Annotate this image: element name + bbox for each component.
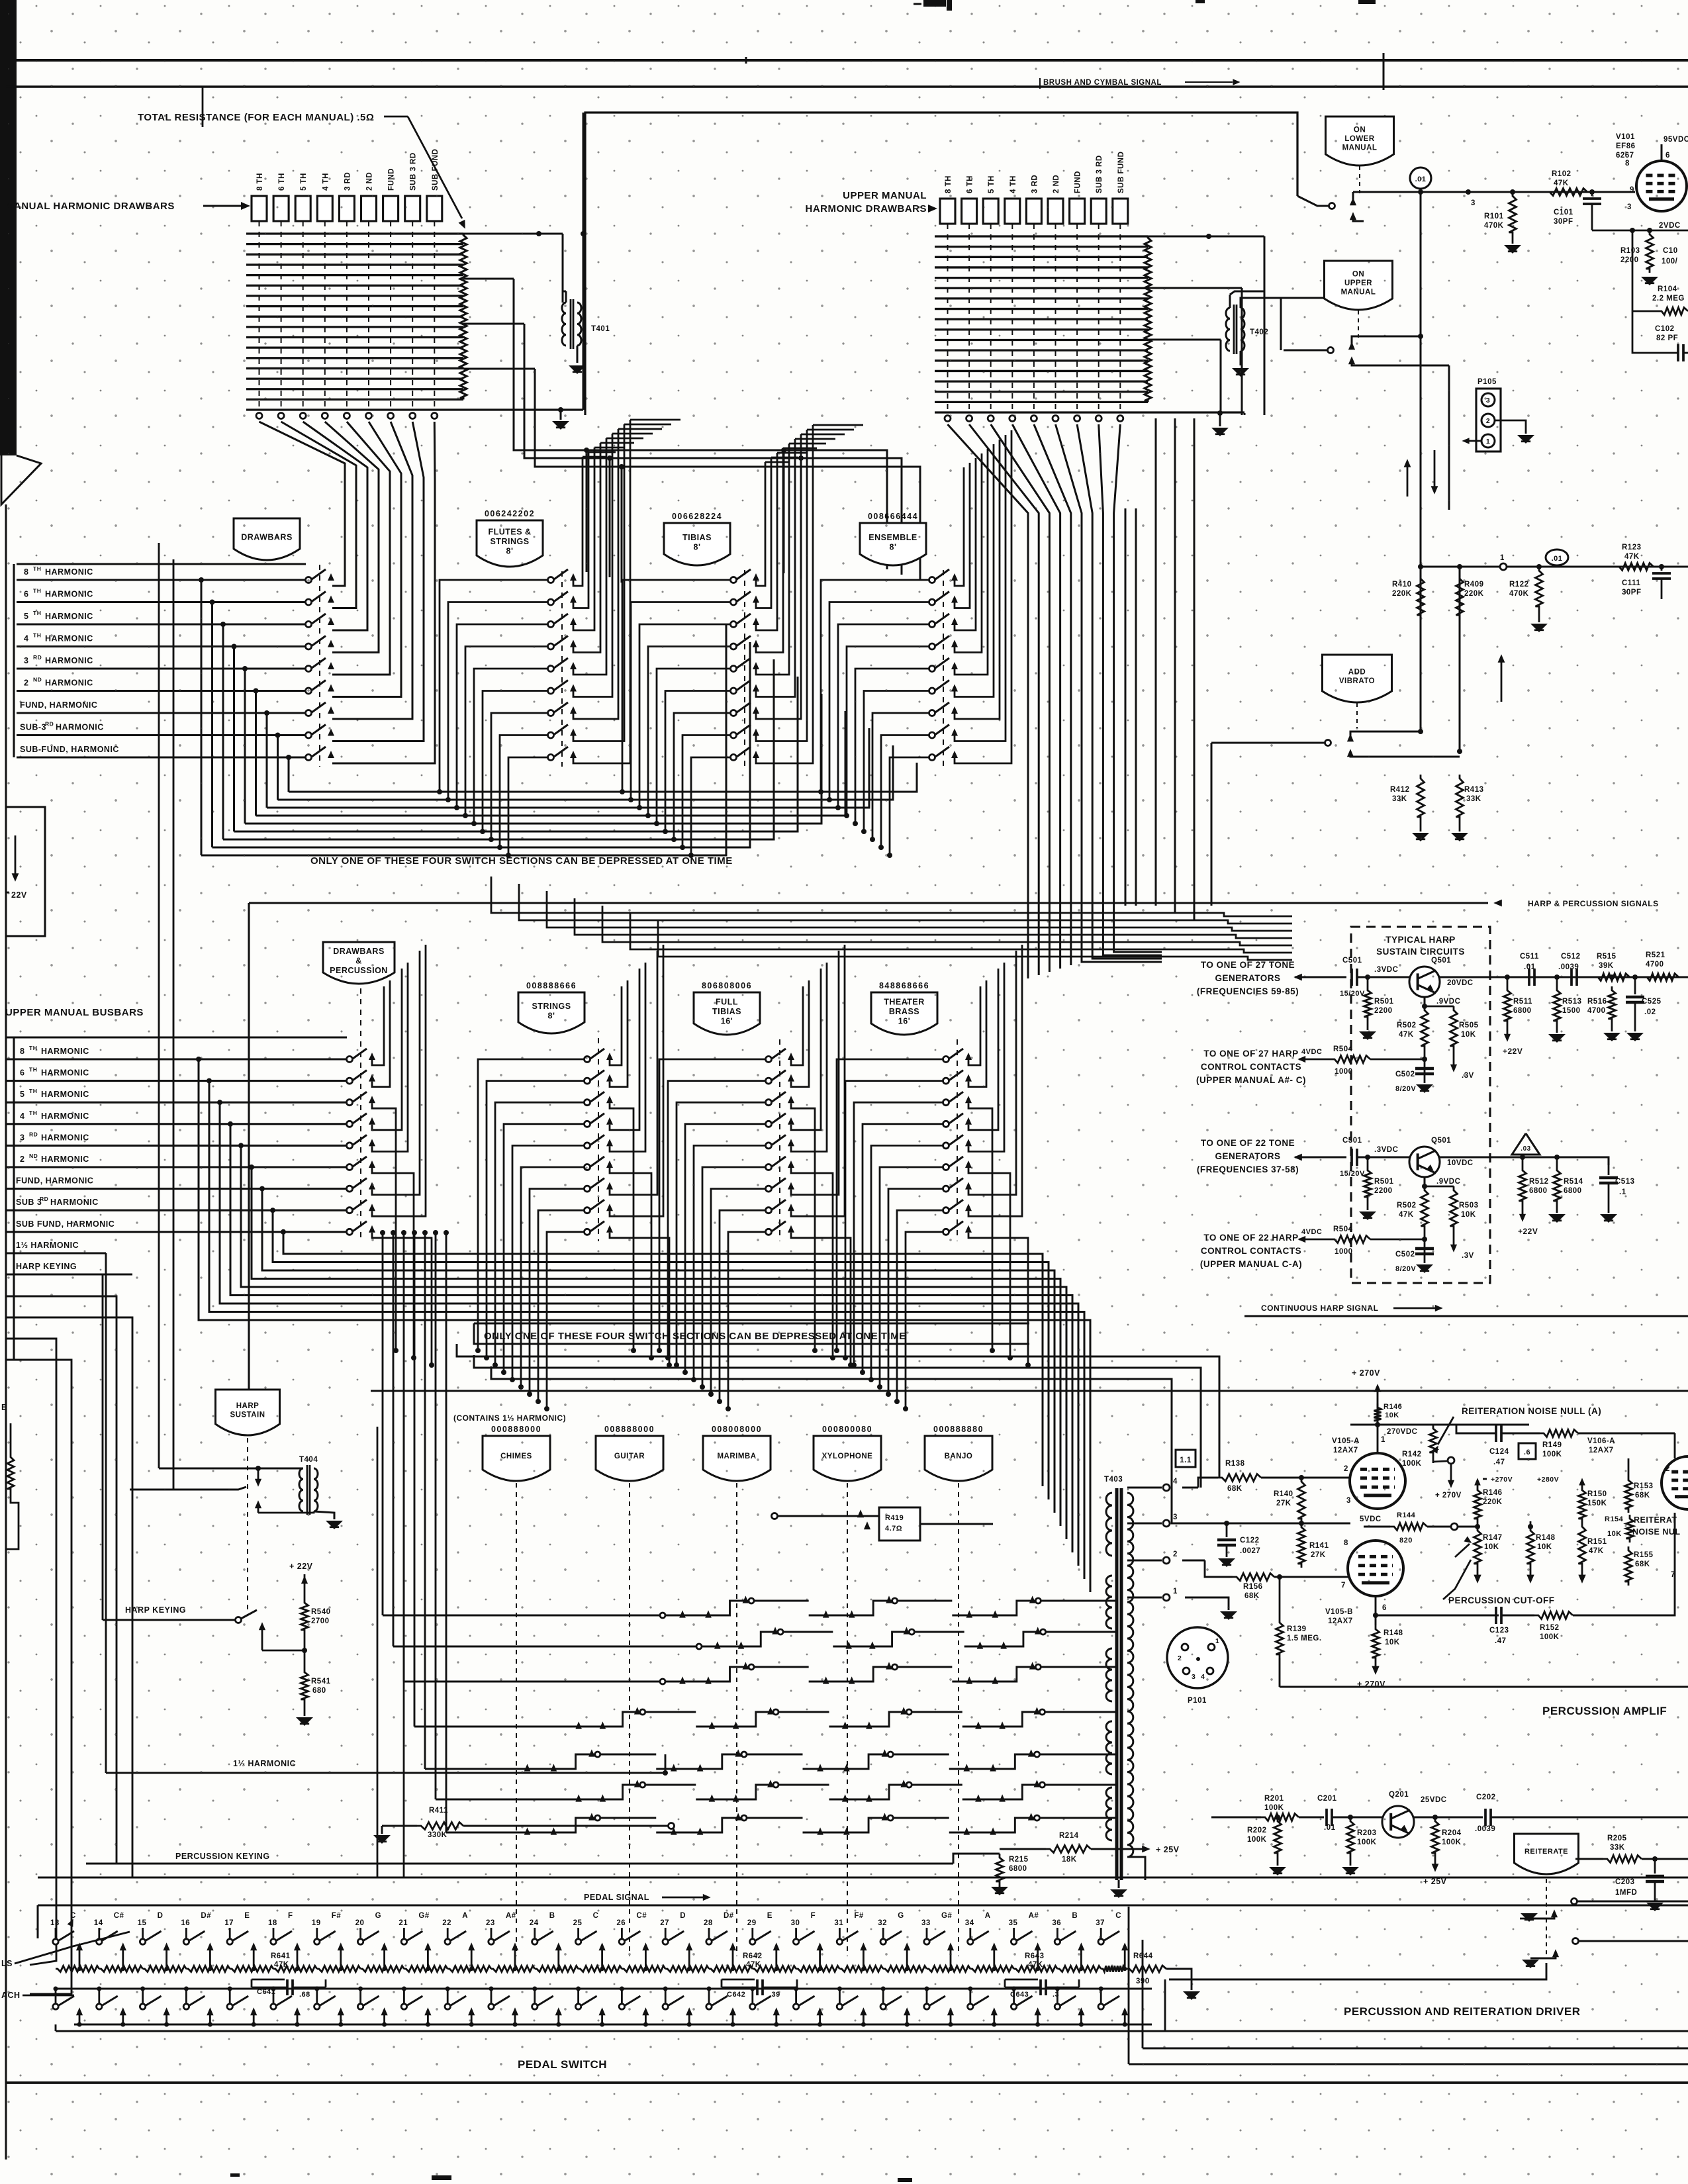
group2 bus line: [6, 1080, 347, 1082]
BANJO dashed stem: [958, 1483, 959, 1956]
tablet ADD VIBRATO: [1323, 655, 1392, 702]
switch row 8: [731, 732, 737, 738]
ground below R501: [1359, 1031, 1376, 1040]
on upper manual switch: [1328, 348, 1334, 354]
C643 .3: [1005, 1979, 1038, 1981]
switch row 1: [766, 1057, 772, 1063]
group2 bus line: [6, 1210, 347, 1211]
switch row 3: [943, 1100, 949, 1106]
resistor R138 68K: [1218, 1474, 1261, 1482]
left resistor mid: [7, 1453, 14, 1493]
switch row 8: [929, 732, 935, 738]
resistor R145 10K plate: [1374, 1403, 1382, 1425]
resistor R501 2200: [1367, 1157, 1368, 1180]
switch row 4: [306, 643, 312, 649]
wire grid V105-B: [1182, 1523, 1350, 1525]
horizontal line above tablets: [371, 1390, 1688, 1392]
ground below C502: [1416, 1084, 1433, 1093]
group1 bus tap drops to bundle A: [199, 577, 204, 583]
switch row 2: [731, 599, 737, 605]
R144 820: [1390, 1523, 1427, 1531]
R504 1000 4VDC arrow: [1297, 1236, 1305, 1243]
tablet MARIMBA: [703, 1436, 771, 1481]
ground below R412: [1412, 833, 1429, 841]
switch row 4: [585, 1121, 590, 1127]
box around upper matrix: [585, 113, 1297, 415]
switch row 8: [766, 1208, 772, 1213]
switch row 5: [731, 666, 737, 672]
resistor R541 680: [301, 1668, 308, 1703]
pedal switches row 2: [56, 1988, 1152, 1990]
group2 bus line: [6, 1145, 347, 1147]
scan marks bottom edge: [432, 2175, 451, 2180]
bus line 5 harmonic: [17, 623, 306, 625]
resistor R409 220K: [1459, 567, 1461, 751]
resistor R152 100K: [1534, 1612, 1573, 1619]
resistor R140 27K: [1298, 1478, 1305, 1523]
GUITAR dashed stem: [629, 1483, 630, 1956]
bus line 2 harmonic: [17, 690, 306, 692]
left elbow feed wires: [6, 1253, 87, 1254]
drawbar FUND: [1070, 199, 1085, 224]
switch row 3: [766, 1100, 772, 1106]
ground below R103: [1641, 277, 1658, 285]
bank dashed line: [319, 565, 320, 767]
tablet DRAWBARS: [234, 518, 300, 560]
central vertical bundle extra lines: [1125, 508, 1127, 906]
R214 18K: [1000, 1848, 1046, 1850]
connector P101: [1167, 1627, 1228, 1688]
arrow up mid right: [1501, 659, 1503, 702]
tablet ON LOWER MANUAL: [1326, 117, 1394, 166]
left 22V box: [6, 807, 45, 936]
ground below T404: [326, 1521, 343, 1529]
matrix bottom bus: [935, 411, 1244, 413]
reiterate switch 2: [1573, 1938, 1579, 1944]
matrix terminal circles: [256, 413, 262, 419]
arrows on vertical wires: [1434, 450, 1436, 490]
Q201 emitter R204: [1409, 1832, 1411, 1857]
switch row 6: [929, 688, 935, 694]
switch row 4: [731, 643, 737, 649]
bus line SUB-FUND, harmonic: [17, 756, 306, 758]
capacitor C525 .02: [1634, 977, 1636, 994]
reiterate switch 1: [1571, 1899, 1577, 1905]
switch row 3: [548, 622, 554, 628]
switch row 5: [766, 1143, 772, 1149]
matrix resistor ladder: [1145, 236, 1151, 402]
switch row 2: [548, 599, 554, 605]
ground at matrix1 bus end: [560, 410, 562, 420]
switch row 8: [347, 1208, 353, 1213]
group2 bus line: [6, 1188, 347, 1190]
value box .6: [1519, 1443, 1536, 1459]
top tick marks: [1383, 53, 1385, 90]
switch row 4: [766, 1121, 772, 1127]
switch row 5: [347, 1143, 353, 1149]
bank dashed line: [598, 1038, 599, 1241]
ground below R501: [1359, 1211, 1376, 1220]
drawbar 8 TH: [252, 196, 267, 221]
switch row 9: [766, 1229, 772, 1235]
tube V106-A: [1662, 1456, 1688, 1509]
left edge diagonal mark: [1, 455, 41, 504]
switch row 1: [943, 1057, 949, 1063]
top border line 1: [6, 59, 1688, 62]
capacitor C501: [1350, 1149, 1353, 1166]
switch row 1: [585, 1057, 590, 1063]
drawbar dashed stems: [259, 221, 260, 410]
drawbar 6 TH: [962, 199, 977, 224]
ground below T401: [569, 365, 586, 374]
drawbar 8 TH: [940, 199, 955, 224]
switch row 5: [585, 1143, 590, 1149]
ground below C502: [1416, 1264, 1433, 1273]
R644 390: [1125, 1966, 1166, 1972]
tube V105-A: [1350, 1453, 1405, 1509]
switch row 8: [585, 1208, 590, 1213]
drawbar 3 RD: [339, 196, 354, 221]
gnd arrows R147 R148 R151: [1477, 1568, 1479, 1577]
drawbar SUB 3 RD: [1091, 199, 1106, 224]
group2 lower output lines: [457, 1344, 1219, 1478]
transformer T401: [562, 234, 564, 303]
wires at R419: [778, 1515, 879, 1517]
resistor R413 33K: [1456, 775, 1464, 821]
matrix1 tap wires: [463, 233, 539, 235]
T403 taps: [1127, 1487, 1162, 1489]
matrix2 fan wires: [948, 424, 1029, 978]
emitter network R502: [1424, 1177, 1426, 1186]
group2 bus tap drops to bundle B: [196, 1057, 201, 1062]
ground below R122: [1530, 624, 1548, 632]
tube V101 EF86: [1636, 161, 1687, 211]
pedal signal upper line: [38, 1877, 1688, 1879]
matrix2 bottom ground: [1219, 413, 1221, 426]
scan marks top edge: [923, 0, 946, 7]
wire from box to switch: [1297, 196, 1329, 206]
switch row 6: [766, 1164, 772, 1170]
tablet ENSEMBLE 8': [860, 523, 926, 565]
wire y856 R123 area: [1421, 566, 1688, 568]
on lower manual switch: [1329, 203, 1335, 209]
capacitor C122 .0027: [1226, 1523, 1228, 1537]
switch row 6: [306, 688, 312, 694]
ground below R541: [296, 1717, 313, 1726]
resistor R513 1500: [1554, 986, 1561, 1025]
percussion region frame: [328, 1427, 330, 1973]
group2 bus line: [6, 1058, 347, 1060]
harp out network 2: [1489, 1157, 1552, 1159]
capacitor C123 .47: [1376, 1615, 1499, 1617]
bundle A lines: [289, 763, 917, 792]
drawbar SUB FUND: [1113, 199, 1128, 224]
resistor R141 27K: [1298, 1523, 1305, 1568]
drops from tap elbows: [586, 450, 588, 572]
left inner border line: [5, 504, 7, 2160]
switch row 9: [585, 1229, 590, 1235]
drawbar 6 TH: [273, 196, 289, 221]
matrix2 tap wires: [1148, 236, 1209, 238]
typical harp sustain dashed box: [1351, 927, 1490, 1283]
resistor R412 33K: [1417, 775, 1425, 821]
tablet FULL TIBIAS 16': [694, 992, 760, 1035]
capacitor C101 30PF: [1589, 189, 1595, 195]
bottom output line 2: [1142, 1940, 1144, 2048]
tablet GUITAR: [596, 1436, 663, 1481]
switch row 9: [306, 755, 312, 761]
group2 bank right comb wires: [372, 986, 384, 1065]
group1 bank right comb wires: [573, 457, 583, 586]
+270V arrow mid: [1450, 1464, 1452, 1483]
ground below T403: [1118, 1880, 1120, 1888]
bottom border line: [6, 2081, 1688, 2084]
R504 1000 4VDC arrow: [1297, 1056, 1305, 1063]
P105 pin1 wire: [1466, 440, 1481, 442]
top border line 2: [6, 85, 1688, 87]
switch row 6: [548, 688, 554, 694]
T402 secondary wires: [1241, 298, 1281, 308]
resistor R203 100K: [1347, 1817, 1354, 1857]
R419 4.7 ohm box: [879, 1507, 920, 1541]
switch row 7: [306, 710, 312, 716]
switch row 6: [585, 1164, 590, 1170]
driver input wire: [1211, 1817, 1261, 1819]
switch row 1: [306, 577, 312, 583]
ground below R101: [1512, 236, 1514, 244]
switch row 2: [929, 599, 935, 605]
resistor R514 6800: [1556, 1157, 1558, 1166]
bank dashed line: [943, 570, 944, 767]
matrix terminal circles: [945, 416, 951, 422]
resistor R202 100K: [1274, 1817, 1282, 1857]
capacitor C203 1MFD: [1652, 1856, 1658, 1862]
C641 .68: [248, 1969, 278, 1983]
capacitor C201 .01: [1325, 1809, 1328, 1826]
bottom wire of amp: [1280, 1686, 1688, 1688]
harp percussion signal band: [491, 877, 1292, 916]
bank dashed line: [957, 1039, 958, 1241]
left wires to T404: [158, 543, 160, 1468]
switch row 5: [929, 666, 935, 672]
main signal wire to V101: [1353, 191, 1635, 193]
group2 busbar ladder top line: [6, 1036, 347, 1038]
capacitor C124 .47: [1456, 1425, 1496, 1433]
emitter network R502: [1424, 997, 1426, 1006]
transistor Q501: [1409, 967, 1440, 997]
drawbar FUND: [383, 196, 399, 221]
drawbar 2 ND: [361, 196, 377, 221]
tablet ON UPPER MANUAL: [1325, 261, 1393, 310]
driver output elbows: [1169, 1963, 1546, 1979]
bottom left elbows: [403, 1391, 405, 1877]
harp percussion signals label: [1493, 900, 1502, 907]
matrix resistor ladder: [460, 234, 467, 399]
wire right of matrix1: [583, 113, 585, 410]
bus line 4 harmonic: [17, 645, 306, 647]
wire tap4 to grid: [1182, 1487, 1198, 1489]
capacitor C513 .1: [1608, 1165, 1610, 1175]
switch row 4: [548, 643, 554, 649]
matrix bottom bus: [246, 408, 583, 410]
tablet DRAWBARS & PERCUSSION: [323, 942, 395, 984]
CHIMES dashed stem: [516, 1483, 517, 1956]
switch row 7: [585, 1186, 590, 1192]
bank dashed line: [779, 1039, 780, 1241]
bus line SUB-3 harmonic: [17, 734, 306, 736]
tablet CHIMES: [483, 1436, 550, 1481]
switch row 9: [943, 1229, 949, 1235]
resistor R501 2200: [1367, 977, 1368, 1000]
ground below T402: [1232, 368, 1249, 377]
switch row 1: [731, 577, 737, 583]
bank dashed line: [561, 571, 563, 767]
switch row 5: [943, 1143, 949, 1149]
drawbar 5 TH: [295, 196, 310, 221]
tablet STRINGS 8': [518, 992, 585, 1033]
XYLOPHONE dashed stem: [847, 1483, 848, 1956]
switch row 4: [347, 1121, 353, 1127]
long vertical wires down-right: [1420, 192, 1422, 567]
switch row 8: [548, 732, 554, 738]
tablet XYLOPHONE: [814, 1436, 881, 1481]
switch row 4: [943, 1121, 949, 1127]
capacitor C501: [1350, 969, 1353, 986]
transistor Q201: [1382, 1806, 1414, 1838]
switch row 2: [585, 1078, 590, 1084]
switch row 2: [766, 1078, 772, 1084]
switch row 8: [306, 732, 312, 738]
switch row 9: [548, 755, 554, 761]
group2 bus line: [6, 1123, 347, 1125]
switch row 1: [548, 577, 554, 583]
T402 to on-upper-manual wire: [1281, 297, 1331, 298]
tablet TIBIAS 8': [664, 523, 730, 565]
switch row 7: [731, 710, 737, 716]
capacitor C502: [1424, 1050, 1426, 1083]
harp out network top C511 C512 R515 R521: [1489, 976, 1688, 978]
bottom output line 1: [1164, 1979, 1166, 2031]
driver outputs right: [1577, 1901, 1688, 1903]
add vibrato wires: [1211, 742, 1325, 744]
MARIMBA dashed stem: [736, 1483, 737, 1956]
R215 6800: [996, 1854, 1004, 1885]
switch row 6: [347, 1164, 353, 1170]
tap 1 ground wire: [1185, 1597, 1229, 1610]
T403 secondary bottom wires: [1127, 1857, 1145, 1880]
group2 bank left elbow wires: [478, 1059, 585, 1351]
transformer T402: [1244, 413, 1246, 415]
resistor R516 4700: [1609, 986, 1616, 1023]
group2 bus line: [6, 1231, 347, 1233]
group2 bus line: [6, 1166, 347, 1168]
group1 bank left elbow wires: [440, 580, 548, 792]
level callout .01 top: [1410, 167, 1431, 189]
P105 ground wire: [1495, 420, 1526, 434]
resistor R512 6800: [1522, 1157, 1524, 1166]
tablet THEATER BRASS 16': [871, 992, 937, 1035]
C642 .39: [722, 1979, 755, 1981]
bank dashed line: [744, 570, 745, 767]
left edge black bar: [0, 0, 17, 455]
switch row 9: [731, 755, 737, 761]
drawbar SUB 3 RD: [405, 196, 420, 221]
chain feed verticals: [380, 1230, 385, 1235]
harp sustain tablet: [216, 1390, 280, 1435]
switch row 7: [943, 1186, 949, 1192]
drawbar SUB FUND: [427, 196, 442, 221]
matrix1 fan wires: [259, 422, 346, 586]
tablet BANJO: [925, 1436, 992, 1481]
pedal resistor chain: [56, 1966, 99, 1972]
resistor R103 2200: [1646, 230, 1654, 273]
warning triangle .03: [1512, 1133, 1540, 1155]
switch row 4: [929, 643, 935, 649]
switch row 3: [731, 622, 737, 628]
switch row 3: [306, 622, 312, 628]
switch row 3: [929, 622, 935, 628]
pedal bottom bus: [74, 2024, 1152, 2026]
V105-B cathode R148 10K: [1375, 1596, 1377, 1625]
matrix bus lines: [246, 232, 463, 234]
resistor R410 220K: [1420, 567, 1422, 732]
matrix1 descending taps: [514, 279, 887, 569]
drawbar 3 RD: [1026, 199, 1041, 224]
group2 bus line: [6, 1102, 347, 1104]
switch row 7: [766, 1186, 772, 1192]
bus line 8 harmonic: [17, 579, 306, 581]
switch row 2: [306, 599, 312, 605]
matrix bus lines: [935, 235, 1148, 237]
add vibrato switch: [1325, 740, 1331, 746]
switch row 3: [347, 1100, 353, 1106]
level callout .01 mid: [1546, 549, 1568, 565]
switch row 9: [347, 1229, 353, 1235]
switch row 9: [929, 755, 935, 761]
bus line 3 harmonic: [17, 667, 306, 669]
capacitor C502: [1424, 1230, 1426, 1263]
resistor R102 47K: [1546, 189, 1587, 196]
resistor R101 470K: [1510, 189, 1515, 195]
R146 220K: [1453, 1476, 1454, 1477]
switch row 7: [548, 710, 554, 716]
resistor R503 10K: [1450, 1186, 1458, 1230]
resistor R503 10K: [1450, 1006, 1458, 1050]
drawbar dashed stems: [947, 224, 949, 412]
pedal box top line: [38, 1905, 1688, 1907]
verticals from matrix2 bus to band: [1155, 418, 1157, 906]
ground below R413: [1451, 833, 1468, 841]
switch row 7: [929, 710, 935, 716]
group1 busbar ladder top line: [17, 563, 306, 565]
bottom output line 3: [1128, 1907, 1130, 2064]
resistor R149 100K: [1540, 1430, 1578, 1437]
switch row 7: [347, 1186, 353, 1192]
bus line FUND, harmonic: [17, 712, 306, 714]
switch row 2: [943, 1078, 949, 1084]
value box 1.1: [1176, 1450, 1196, 1467]
wires at on upper manual switch: [1330, 297, 1331, 348]
tablet REITERATE: [1515, 1834, 1579, 1874]
tube V105-B: [1348, 1541, 1403, 1596]
switch row 6: [943, 1164, 949, 1170]
drawbar 2 ND: [1048, 199, 1063, 224]
capacitor C202 .0039: [1484, 1809, 1487, 1826]
switch row 2: [347, 1078, 353, 1084]
switch row 5: [306, 666, 312, 672]
tablet FLUTES & STRINGS 8': [477, 520, 543, 567]
bank dashed line: [360, 988, 361, 1241]
